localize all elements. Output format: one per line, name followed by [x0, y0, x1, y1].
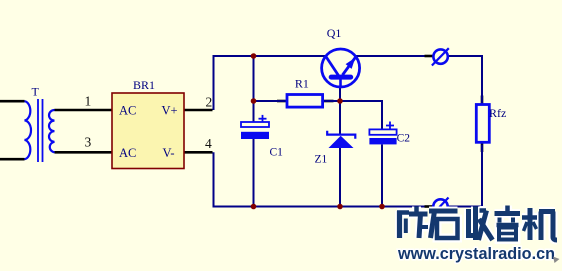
- svg-text:AC: AC: [119, 146, 136, 160]
- svg-text:3: 3: [85, 135, 92, 150]
- svg-text:Rfz: Rfz: [489, 106, 506, 120]
- svg-text:BR1: BR1: [133, 78, 155, 92]
- svg-text:V+: V+: [162, 104, 178, 118]
- svg-text:V-: V-: [163, 146, 175, 160]
- svg-text:4: 4: [205, 136, 212, 151]
- svg-text:R1: R1: [295, 77, 309, 91]
- svg-text:2: 2: [206, 95, 213, 110]
- svg-text:C1: C1: [270, 147, 284, 159]
- svg-text:Z1: Z1: [315, 154, 328, 166]
- svg-text:1: 1: [85, 94, 92, 109]
- svg-text:www.crystalradio.cn: www.crystalradio.cn: [397, 244, 555, 263]
- svg-text:T: T: [32, 85, 40, 99]
- svg-text:AC: AC: [119, 104, 136, 118]
- svg-text:Q1: Q1: [327, 26, 342, 40]
- svg-text:C2: C2: [397, 133, 411, 145]
